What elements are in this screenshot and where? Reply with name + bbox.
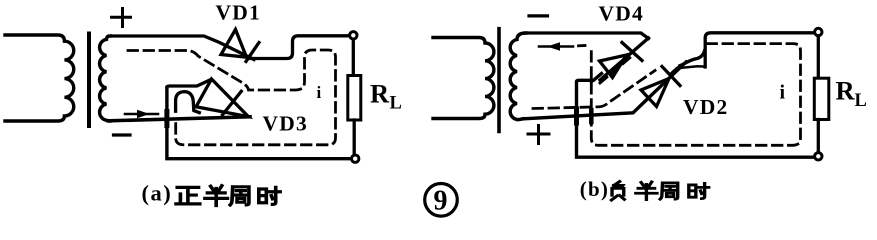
wire: VD2 cathode wiggle up to top wire and node (fig b) [671, 33, 813, 74]
wire: secondary bottom to VD3 cathode [109, 117, 250, 121]
wire: bottom outline from node to VD3 anode riser [167, 88, 351, 159]
dashed current path loop (fig a) [128, 50, 336, 145]
junction hash at riser crossing bottom wire [164, 112, 169, 126]
wire: secondary top to VD1 anode [109, 36, 254, 60]
transformer primary winding (fig b) [433, 38, 494, 119]
transformer T primary winding (fig a) [5, 35, 74, 121]
transformer secondary winding (fig a) [100, 36, 111, 121]
caption (a) glyph ban [205, 186, 228, 206]
wire: bottom outline and VD4 anode gamma lead (fig b) [577, 74, 814, 158]
junction blob at dashed riser crossing anode lead (fig b) [589, 78, 594, 83]
VD2 label [683, 95, 728, 119]
diode VD1 triangle [221, 30, 247, 58]
svg-text:VD2: VD2 [683, 95, 728, 119]
caption (b) latin part [580, 177, 609, 201]
hop arch of current path over wires (fig a) [176, 92, 200, 113]
dashed current path main loop (fig b) [591, 44, 800, 146]
svg-text:L: L [390, 94, 402, 114]
current label i (fig b) [780, 82, 786, 104]
dashed current path alongside VD2 [533, 71, 655, 109]
caption (b) glyph fu [611, 181, 624, 200]
svg-text:(b): (b) [580, 177, 609, 201]
current direction arrow (fig b) [539, 42, 573, 50]
current direction arrow (fig a) [125, 110, 158, 118]
caption (a) glyph shi [259, 187, 280, 204]
VD3 label [263, 112, 308, 136]
RL label (fig a) [370, 78, 402, 113]
wire: VD1 cathode to top node [251, 36, 348, 59]
node: output bottom terminal (fig b) [815, 153, 822, 160]
diode VD1 cathode bar [246, 43, 259, 62]
node: output top terminal (fig b) [815, 28, 822, 35]
dashed path connector step after VD2 [677, 62, 704, 69]
caption (b) glyph shi [689, 183, 709, 198]
+ polarity mark (fig a top) [112, 9, 131, 27]
wire: secondary bottom (plus) to VD2 anode [523, 62, 686, 119]
node: output top terminal (fig a) [350, 32, 357, 39]
svg-text:L: L [855, 91, 867, 111]
caption (b) glyph ban [636, 182, 657, 200]
junction hash at outline riser crossing plus wire [574, 109, 579, 123]
wire: RL bottom to bottom node (fig b) [817, 120, 820, 152]
figure number 9 circled [425, 184, 458, 217]
junction hash at dashed riser crossing plus wire [589, 110, 594, 122]
RL label (fig b) [836, 76, 867, 112]
wire: VD3 anode lead (gamma) [167, 80, 211, 88]
VD1 label [216, 1, 261, 25]
diode VD3 cathode bar [223, 91, 242, 115]
dashed current path alongside VD4 [600, 56, 632, 83]
svg-text:i: i [780, 82, 786, 104]
transformer core [87, 34, 91, 127]
wire: node to RL top (fig b) [817, 37, 820, 78]
current label i (fig a) [317, 83, 322, 102]
resistor RL (fig a) [348, 76, 361, 121]
svg-text:9: 9 [434, 186, 448, 217]
caption (a) latin part [142, 181, 173, 206]
svg-text:VD3: VD3 [263, 112, 308, 136]
svg-text:R: R [370, 78, 390, 108]
svg-text:VD1: VD1 [216, 1, 261, 25]
caption (b) glyph zhou [660, 183, 678, 199]
diode VD4 triangle [600, 55, 627, 78]
dashed current path: short dash near arrow [579, 44, 586, 47]
wire: secondary top (minus) to VD4 cathode [525, 33, 649, 39]
transformer secondary winding (fig b) [510, 33, 526, 120]
transformer core (fig b) [497, 29, 501, 132]
node: output bottom terminal (fig a) [352, 155, 359, 162]
caption (a) glyph zhou [230, 187, 249, 205]
VD4 axis lead [600, 38, 649, 80]
- polarity mark (fig a bottom) [114, 133, 131, 136]
diode VD2 triangle [641, 79, 669, 107]
+ polarity mark (fig b bottom) [528, 126, 549, 144]
svg-text:R: R [836, 76, 856, 106]
- polarity mark (fig b top) [529, 14, 548, 17]
wire: node to RL top [352, 40, 355, 75]
resistor RL (fig b) [814, 78, 829, 119]
caption (a) glyph zheng [176, 187, 200, 204]
VD4 label [599, 2, 644, 26]
wire: RL bottom to bottom node [353, 120, 356, 154]
diode VD4 cathode bar [622, 43, 642, 61]
svg-text:VD4: VD4 [599, 2, 644, 26]
diode VD2 cathode bar [662, 67, 680, 86]
diode VD3 triangle [196, 79, 248, 117]
svg-text:i: i [317, 83, 322, 102]
svg-text:(a): (a) [142, 181, 173, 206]
